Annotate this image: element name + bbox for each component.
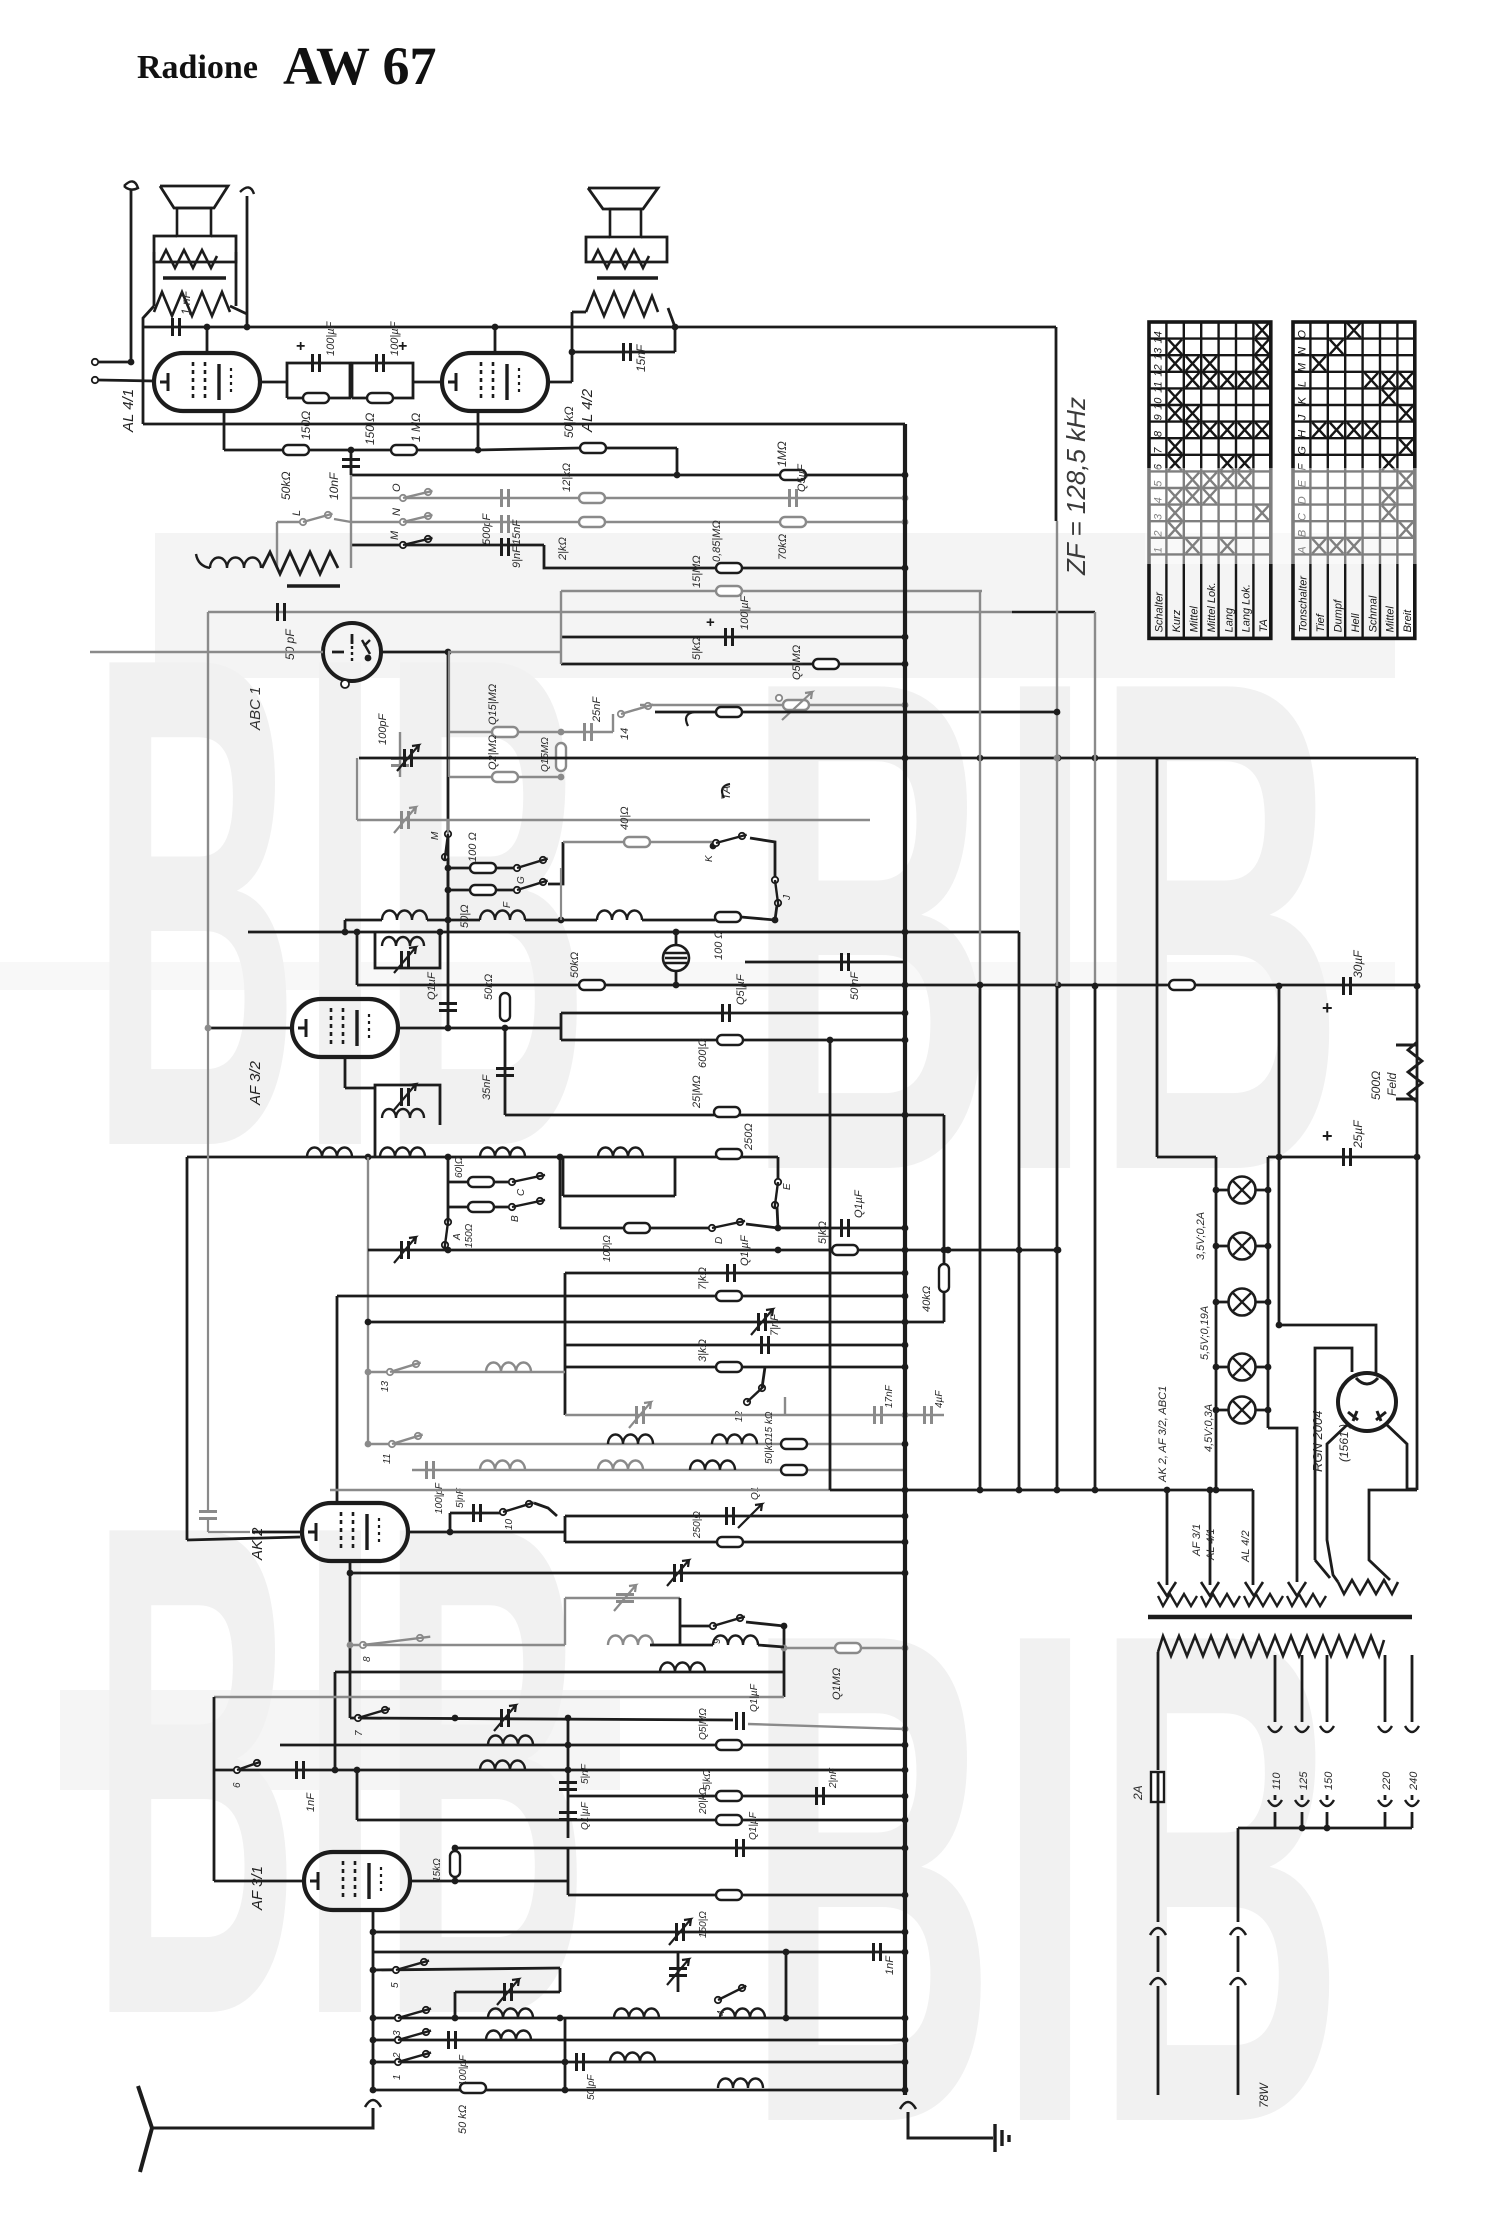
wire x1157 — [1156, 758, 1159, 1157]
resistor 1MΩ — [780, 470, 806, 480]
svg-text:5|kΩ: 5|kΩ — [691, 637, 703, 660]
svg-text:Dumpf: Dumpf — [1333, 599, 1345, 632]
wire gray y522 — [351, 521, 905, 523]
tap wire 240 — [1411, 1655, 1414, 1722]
wire y842 — [563, 841, 713, 843]
wire — [1237, 1986, 1240, 2095]
trimmer capacitor — [502, 1709, 509, 1727]
coil — [598, 1148, 643, 1158]
switch O — [400, 495, 406, 501]
wire AL4/2 cathode — [477, 410, 480, 450]
trimmer capacitor — [677, 1923, 684, 1941]
wire x568 caps — [567, 1718, 570, 1838]
tap chevron — [1295, 1726, 1309, 1732]
fuse 2A — [1151, 1772, 1164, 1802]
output transformer T1 core bar — [163, 276, 226, 279]
wire y1645 gray — [350, 1644, 565, 1646]
wire y545 — [351, 544, 544, 547]
capacitor 0,1µF — [559, 1813, 577, 1820]
RGN filament winding — [1338, 1580, 1398, 1594]
wire x187 AK2 grid — [186, 1157, 189, 1540]
coil — [382, 911, 427, 920]
coil — [660, 1663, 705, 1673]
svg-text:1MΩ: 1MΩ — [775, 441, 789, 467]
wire x357b — [356, 932, 359, 985]
wire x784 — [783, 1626, 786, 1697]
coil — [488, 2009, 533, 2019]
capacitor 0,5µF — [790, 489, 797, 507]
wire speaker LS1 left — [130, 190, 133, 362]
wire x565d — [564, 2018, 567, 2090]
speaker LS2 magnet — [610, 209, 641, 237]
speaker LS1 voice coil zigzag — [160, 250, 217, 268]
tap fork — [1268, 1800, 1282, 1806]
switch 4 — [715, 1997, 721, 2003]
svg-text:K: K — [1297, 396, 1309, 404]
svg-text:L: L — [291, 510, 303, 516]
wire x1019 — [1018, 932, 1021, 1490]
capacitor 15nF — [502, 515, 509, 533]
svg-text:AL 4/1: AL 4/1 — [1205, 1528, 1217, 1561]
wire AL4/1 to filter — [260, 381, 287, 384]
resistor 50kΩ vertical — [500, 993, 510, 1021]
wire bus y985 — [357, 984, 1417, 987]
wire x1058 — [1055, 327, 1058, 521]
pilot lamp 4 — [1216, 1366, 1268, 1369]
svg-text:5: 5 — [390, 1982, 401, 1988]
svg-text:100|µF: 100|µF — [325, 320, 337, 356]
switch N — [400, 519, 406, 525]
svg-text:1: 1 — [392, 2074, 403, 2080]
box sides — [564, 1598, 566, 1645]
wire AF3/2 plate — [398, 1027, 561, 1030]
capacitor 50pF — [577, 2053, 584, 2071]
svg-text:Q1µF: Q1µF — [853, 1189, 865, 1218]
capacitor 5nF — [559, 1783, 577, 1790]
coil — [597, 911, 642, 920]
svg-text:500pF: 500pF — [481, 513, 493, 545]
output transformer T2 secondary zigzag — [586, 292, 658, 316]
speaker LS1 magnet — [177, 208, 211, 236]
break — [1150, 1928, 1166, 1935]
tube AL 4/1 — [154, 353, 260, 411]
svg-text:250Ω: 250Ω — [743, 1123, 755, 1151]
terminal hook left — [124, 181, 138, 189]
tap bus — [1269, 1827, 1412, 1830]
wire x830 — [829, 1040, 832, 1490]
electrolytic filter box 1 — [287, 363, 350, 398]
svg-text:Tief: Tief — [1315, 613, 1327, 632]
wire y2040 — [373, 2039, 905, 2042]
svg-text:7: 7 — [354, 1730, 365, 1736]
scan shading band — [0, 962, 1395, 990]
wire x214 — [213, 1697, 216, 1881]
resistor 5kΩ — [832, 1245, 858, 1255]
wire plate AL4/1 — [206, 327, 209, 353]
svg-text:14: 14 — [619, 728, 631, 740]
wire y1470 gray — [412, 1469, 905, 1471]
wire gray y777 — [449, 776, 561, 778]
coil — [608, 1435, 653, 1445]
wire y1182 — [448, 1181, 512, 1184]
wire gray y612 — [208, 611, 1012, 613]
resistor 7kΩ — [716, 1291, 742, 1301]
coil — [380, 1148, 425, 1158]
svg-text:M: M — [389, 530, 401, 540]
junction — [204, 324, 211, 331]
wire corner x944 — [943, 1115, 946, 1322]
wire gray tail — [748, 1724, 905, 1729]
resistor 0,15MΩ — [492, 727, 518, 737]
svg-text:5,5V;0,19A: 5,5V;0,19A — [1199, 1306, 1211, 1360]
wire AL4/2 right — [548, 381, 572, 384]
trimmer capacitor — [402, 1241, 409, 1259]
wire top bus — [143, 326, 1056, 329]
wire vertical x448 — [447, 652, 450, 1028]
capacitor 0,1µF — [778, 1227, 905, 1230]
wire y1745 — [280, 1744, 905, 1747]
grid cap wire — [252, 1531, 302, 1534]
wire gray y732 — [449, 731, 613, 733]
svg-text:1nF: 1nF — [305, 1792, 317, 1812]
wire y1157 row — [187, 1156, 778, 1159]
resistor 2kΩ — [579, 517, 605, 527]
capacitor 30µF — [1344, 977, 1351, 995]
svg-text:Schmal: Schmal — [1367, 595, 1379, 632]
wire x560c — [559, 1157, 562, 1228]
resistor 0,5MΩ — [716, 1740, 742, 1750]
wire RGN U loop — [1315, 1348, 1352, 1560]
wire x980 gray — [979, 591, 981, 986]
long resistor box top y637 — [561, 636, 905, 639]
switch 8 — [360, 1642, 366, 1648]
pilot lamp 1 — [1216, 1189, 1268, 1192]
svg-text:50kΩ: 50kΩ — [569, 952, 581, 978]
wire x357 — [356, 758, 358, 820]
wire box — [562, 1157, 565, 1196]
wire B+ x1417 — [1416, 758, 1419, 1490]
pilot lamp 2 — [1216, 1245, 1268, 1248]
switch G — [514, 865, 520, 871]
svg-text:15|MΩ: 15|MΩ — [691, 555, 703, 588]
wire AF3/1 left — [214, 1880, 304, 1883]
capacitor 25µF — [1279, 1156, 1417, 1159]
svg-text:60|Ω: 60|Ω — [454, 1156, 465, 1178]
svg-text:13: 13 — [1153, 347, 1165, 360]
box edges — [567, 1848, 570, 1895]
svg-text:1nF: 1nF — [884, 1955, 896, 1975]
resistor 600Ω — [717, 1035, 743, 1045]
coil gray — [598, 1461, 643, 1471]
capacitor 100pF — [449, 2031, 456, 2049]
svg-text:BIB: BIB — [90, 511, 590, 1293]
resistor 5kΩ — [813, 659, 839, 669]
resistor 60Ω — [468, 1177, 494, 1187]
antenna lead — [152, 2108, 373, 2128]
resistor 50Ω — [470, 885, 496, 895]
svg-text:AF 3/1: AF 3/1 — [1191, 1524, 1203, 1557]
wire — [478, 448, 580, 450]
wire — [142, 327, 145, 424]
long box y1040 — [561, 1039, 905, 1042]
svg-text:3|kΩ: 3|kΩ — [697, 1339, 709, 1362]
wire heater drop x1210 — [1209, 1490, 1212, 1585]
capacitor 1nF — [173, 318, 180, 336]
wire ABC1 plate — [381, 651, 448, 654]
svg-text:17nF: 17nF — [884, 1384, 895, 1408]
svg-text:7|nF: 7|nF — [769, 1313, 781, 1336]
heater terminal V4 — [1288, 1582, 1306, 1596]
electrolytic filter box 2 — [352, 363, 413, 398]
wire y1770 — [214, 1769, 905, 1772]
svg-text:G: G — [516, 876, 527, 884]
wire y1848 — [455, 1847, 905, 1850]
wire corner x778 — [777, 1157, 780, 1180]
svg-text:Radione: Radione — [137, 49, 258, 86]
wire AF3/2 left — [208, 1027, 292, 1030]
wire vertical x449 gray — [448, 652, 450, 777]
speaker LS1 frame — [154, 236, 236, 262]
IFT2 trimmer — [402, 1088, 409, 1106]
resistor 100Ω — [715, 912, 741, 922]
svg-text:100|µF: 100|µF — [739, 594, 751, 630]
coil — [480, 911, 525, 920]
svg-text:J: J — [1297, 414, 1309, 421]
svg-text:20|kΩ: 20|kΩ — [698, 1787, 709, 1815]
wire x448b — [447, 890, 450, 920]
wire y1648 gray — [784, 1647, 905, 1649]
svg-text:AK 2, AF 3/2, ABC1: AK 2, AF 3/2, ABC1 — [1157, 1386, 1169, 1483]
svg-text:13: 13 — [380, 1380, 391, 1392]
svg-text:25|MΩ: 25|MΩ — [691, 1075, 703, 1109]
output transformer T2 core bar — [597, 276, 658, 279]
wire heater corner x1253 — [1252, 1490, 1255, 1585]
capacitor 25nF — [585, 723, 592, 741]
coil — [712, 1435, 757, 1445]
coil gray — [608, 1636, 653, 1646]
svg-text:50|kΩ: 50|kΩ — [764, 1437, 775, 1464]
switch F — [514, 887, 520, 893]
switch C — [509, 1179, 515, 1185]
wire y890 — [448, 889, 517, 892]
wire y1970 — [373, 1968, 560, 1970]
resistor 50kΩ — [283, 445, 309, 455]
wire — [1157, 1936, 1160, 1972]
resistor 50kΩ — [460, 2083, 486, 2093]
svg-text:100|pF: 100|pF — [434, 1482, 445, 1514]
terminal hook TA2 — [722, 784, 730, 798]
resistor 0,1MΩ — [835, 1643, 861, 1653]
svg-text:AL 4/2: AL 4/2 — [579, 388, 596, 433]
speaker LS2 voice coil zigzag — [592, 250, 649, 268]
svg-text:40|Ω: 40|Ω — [619, 807, 631, 830]
wire y1952 — [373, 1951, 905, 1954]
wire y1573 — [350, 1572, 905, 1575]
wire y1273 — [565, 1272, 905, 1275]
wire gray vertical switch bank — [350, 475, 352, 568]
capacitor 5nF — [449, 1513, 452, 1532]
resistor 150Ω — [303, 393, 329, 403]
IF transformer 1 box — [375, 932, 440, 968]
wire gray y591 — [561, 590, 982, 592]
box left edge — [560, 1013, 563, 1040]
svg-text:J: J — [782, 894, 793, 901]
capacitor 0,1µF — [728, 1264, 735, 1282]
svg-text:12: 12 — [1153, 364, 1165, 376]
watermark — [90, 511, 1345, 2224]
tap fork — [1378, 1800, 1392, 1806]
tap chevron — [1320, 1726, 1334, 1732]
tap fork — [1320, 1800, 1334, 1806]
svg-text:600|Ω: 600|Ω — [697, 1038, 709, 1068]
svg-text:5|kΩ: 5|kΩ — [817, 1221, 829, 1244]
wire x335 — [334, 1672, 337, 1770]
svg-text:Q1|µF: Q1|µF — [739, 1234, 751, 1266]
capacitor grid 5nF — [207, 1028, 209, 1510]
resistor 15kΩ vertical — [450, 1851, 460, 1877]
pilot lamp 3 — [1216, 1301, 1268, 1304]
resistor 3kΩ — [716, 1362, 742, 1372]
wire y1796 — [568, 1795, 905, 1798]
coil — [610, 2053, 655, 2063]
capacitor 15nF — [572, 351, 675, 354]
svg-text:40kΩ: 40kΩ — [921, 1286, 933, 1312]
pilot lamp rail left — [1215, 1168, 1218, 1490]
svg-text:3: 3 — [392, 2030, 403, 2036]
resistor 40Ω — [624, 837, 650, 847]
trimmer capacitor gray — [616, 1595, 634, 1602]
trimmer capacitor — [759, 1313, 766, 1331]
coil — [486, 2031, 531, 2041]
capacitor 1nF — [297, 1761, 304, 1779]
capacitor 100µF — [313, 354, 320, 372]
long box AF31 bottom — [568, 1894, 905, 1897]
wire — [309, 449, 351, 452]
resistor 25MΩ — [714, 1107, 740, 1117]
capacitor 17nF — [875, 1406, 882, 1424]
wire box osc — [559, 1968, 562, 1992]
resistor 150Ω — [716, 1890, 742, 1900]
resistor 150Ω — [367, 393, 393, 403]
resistor 100Ω — [624, 1223, 650, 1233]
wire y1322 — [368, 1321, 944, 1324]
svg-text:Q5|MΩ: Q5|MΩ — [698, 1708, 709, 1740]
svg-text:Q1: Q1 — [750, 1487, 761, 1500]
wire x1095 — [1094, 612, 1096, 986]
scan shading band — [60, 1690, 620, 1790]
tap fork — [1295, 1800, 1309, 1806]
IF transformer 2 box — [375, 1085, 440, 1125]
switch 7 — [355, 1715, 361, 1721]
svg-text:+: + — [1322, 1126, 1333, 1146]
resistor 150Ω — [468, 1202, 494, 1212]
switch A — [445, 1219, 451, 1225]
break — [1230, 1978, 1246, 1985]
wire gray y705 potentiometer — [640, 704, 905, 706]
svg-text:B: B — [510, 1215, 521, 1222]
resistor 15kΩ — [781, 1439, 807, 1449]
scan shading band — [155, 533, 1395, 678]
capacitor 50pF — [278, 603, 285, 621]
svg-text:150Ω: 150Ω — [464, 1223, 475, 1248]
resistor 15MΩ — [716, 586, 742, 596]
svg-text:220: 220 — [1381, 1771, 1393, 1791]
tap chevron — [1405, 1726, 1419, 1732]
wire gray y498 — [351, 497, 905, 499]
junction — [902, 1441, 909, 1448]
capacitor 0,1µF — [727, 1507, 734, 1525]
wire AL4/2 plate — [494, 327, 497, 353]
switch 2 — [395, 2037, 401, 2043]
speaker LS2 frame — [586, 237, 667, 262]
wire y2018 — [373, 2017, 905, 2020]
svg-text:50kΩ: 50kΩ — [483, 974, 495, 1000]
long box y1013 — [561, 1012, 905, 1015]
svg-text:110: 110 — [1271, 1772, 1283, 1790]
svg-text:C: C — [516, 1188, 527, 1196]
antenna coil — [210, 558, 261, 569]
svg-text:4µF: 4µF — [934, 1390, 945, 1408]
svg-text:Q1|µF: Q1|µF — [748, 1811, 759, 1840]
wire y1598 gray — [565, 1597, 680, 1599]
switch 6 — [234, 1767, 240, 1773]
capacitor 9nF — [502, 538, 509, 556]
svg-text:1 MΩ: 1 MΩ — [409, 413, 423, 442]
IFT2 coil — [382, 1109, 424, 1118]
wire x561b — [560, 868, 562, 920]
speaker LS1 horn — [160, 186, 228, 208]
antenna coil lead — [196, 554, 210, 568]
svg-text:Kurz: Kurz — [1171, 609, 1183, 632]
switch 12 — [744, 1399, 750, 1405]
wire RGN left leg 2 — [1315, 1560, 1330, 1578]
svg-text:7: 7 — [1153, 447, 1165, 454]
svg-text:Q5|µF: Q5|µF — [735, 973, 747, 1005]
coil gray — [486, 1363, 531, 1373]
coil — [690, 1461, 735, 1471]
wire mains right — [1237, 1828, 1240, 1922]
meter symbol — [663, 945, 689, 971]
svg-text:9: 9 — [1153, 414, 1165, 420]
svg-text:Tonschalter: Tonschalter — [1298, 575, 1310, 633]
tube AF 3/2 — [292, 999, 398, 1057]
wire RGN right leg — [1386, 1424, 1417, 1489]
svg-text:10: 10 — [504, 1518, 515, 1530]
wire — [572, 311, 586, 314]
wire y612 dark tail — [1012, 611, 1095, 613]
wire B+ corner to winding — [1369, 1490, 1417, 1580]
resistor 20kΩ — [716, 1815, 742, 1825]
svg-text:14: 14 — [1153, 331, 1165, 343]
switch D — [709, 1225, 715, 1231]
core bar — [287, 584, 340, 588]
capacitor 0,1µF — [737, 1839, 744, 1857]
svg-text:AF 3/2: AF 3/2 — [247, 1060, 264, 1106]
svg-text:Q2|MΩ: Q2|MΩ — [487, 735, 499, 770]
svg-text:7|kΩ: 7|kΩ — [697, 1267, 709, 1290]
svg-text:8: 8 — [1153, 430, 1165, 437]
break x905 — [900, 2102, 916, 2109]
resistor 0,2MΩ — [492, 772, 518, 782]
svg-text:Q5µF: Q5µF — [796, 463, 808, 492]
capacitor 0,1µF inline — [737, 1712, 744, 1730]
svg-text:ZF = 128,5 kHz: ZF = 128,5 kHz — [1061, 397, 1091, 576]
ground — [995, 2124, 1009, 2152]
svg-text:500Ω: 500Ω — [1369, 1071, 1383, 1100]
trimmer capacitor — [669, 1969, 687, 1976]
capacitor 0,5µF — [723, 1004, 730, 1022]
switch 11 — [389, 1441, 395, 1447]
